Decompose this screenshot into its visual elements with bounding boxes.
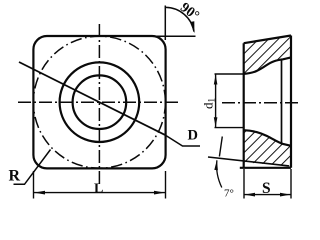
arrowhead of 90 degree arc [190, 21, 195, 33]
section outline: right face [290, 36, 292, 168]
diagonal D line [19, 62, 166, 135]
inscribed circle (dash-dot) [33, 36, 165, 168]
section outline: left face [243, 43, 245, 168]
hole center line of section [222, 102, 299, 104]
countersink curve lower [244, 130, 291, 146]
hatching of bottom piece [240, 127, 294, 171]
svg-text:S: S [262, 180, 271, 197]
d1 lower extension line [215, 127, 245, 129]
section outline: top edge (slanted) [244, 36, 291, 44]
arrowhead of 7 degree arc [214, 160, 218, 170]
hatching of top piece [240, 32, 294, 77]
L dimension right extension line [165, 171, 167, 199]
L dimension left extension line [33, 171, 35, 199]
90 degree corner annotation: vertical extension line [164, 6, 166, 41]
short face-direction line [219, 137, 222, 157]
svg-text:7°: 7° [224, 188, 234, 200]
L left arrowhead [34, 191, 45, 195]
section outline: bottom edge [240, 167, 291, 169]
L dimension line [34, 192, 165, 194]
7 degree arc [217, 160, 222, 187]
svg-text:D: D [188, 128, 198, 144]
corner radius leader [14, 150, 51, 185]
S dimension left extension line [243, 169, 245, 199]
S dimension right extension line [290, 169, 292, 199]
vertical center line [98, 24, 100, 187]
outer hole circle [60, 62, 140, 142]
90 degree arc [166, 7, 194, 31]
d1 upper arrowhead [214, 75, 218, 85]
svg-text:L: L [94, 182, 103, 197]
d1 upper extension line [215, 73, 245, 75]
inner hole circle [73, 75, 127, 129]
svg-text:R: R [9, 168, 21, 185]
7 degree clearance line [208, 157, 289, 166]
S left arrowhead [245, 193, 256, 197]
countersink curve upper [244, 57, 291, 74]
L right arrowhead [154, 191, 165, 195]
horizontal center line [18, 101, 181, 103]
90 degree corner annotation: horizontal extension line [152, 35, 196, 37]
square insert body outline [33, 36, 165, 168]
hole transition edge line [281, 59, 283, 144]
leader to D label [166, 135, 201, 146]
d1 lower arrowhead [214, 117, 218, 127]
S dimension line [245, 194, 291, 196]
S right arrowhead [280, 193, 291, 197]
d1 dimension line [215, 75, 217, 128]
